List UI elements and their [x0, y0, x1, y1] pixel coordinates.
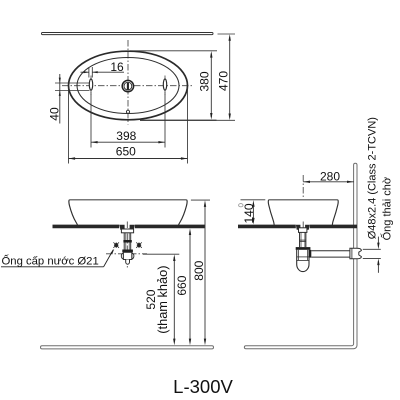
svg-text:Ống thải chờ: Ống thải chờ: [379, 177, 393, 240]
svg-text:16: 16: [110, 60, 124, 74]
svg-text:140: 140: [242, 203, 256, 223]
svg-text:(tham khảo): (tham khảo): [155, 265, 170, 333]
svg-text:650: 650: [116, 145, 136, 159]
svg-text:L-300V: L-300V: [173, 376, 233, 397]
svg-text:398: 398: [116, 129, 136, 143]
svg-text:660: 660: [175, 275, 189, 295]
svg-text:800: 800: [192, 260, 206, 280]
svg-text:40: 40: [47, 107, 61, 121]
svg-text:Ống cấp nước Ø21: Ống cấp nước Ø21: [2, 253, 99, 267]
svg-text:Ø48x2.4 (Class 2-TCVN): Ø48x2.4 (Class 2-TCVN): [366, 117, 378, 239]
svg-text:280: 280: [320, 169, 340, 183]
svg-text:380: 380: [198, 71, 212, 91]
svg-text:470: 470: [216, 71, 230, 91]
